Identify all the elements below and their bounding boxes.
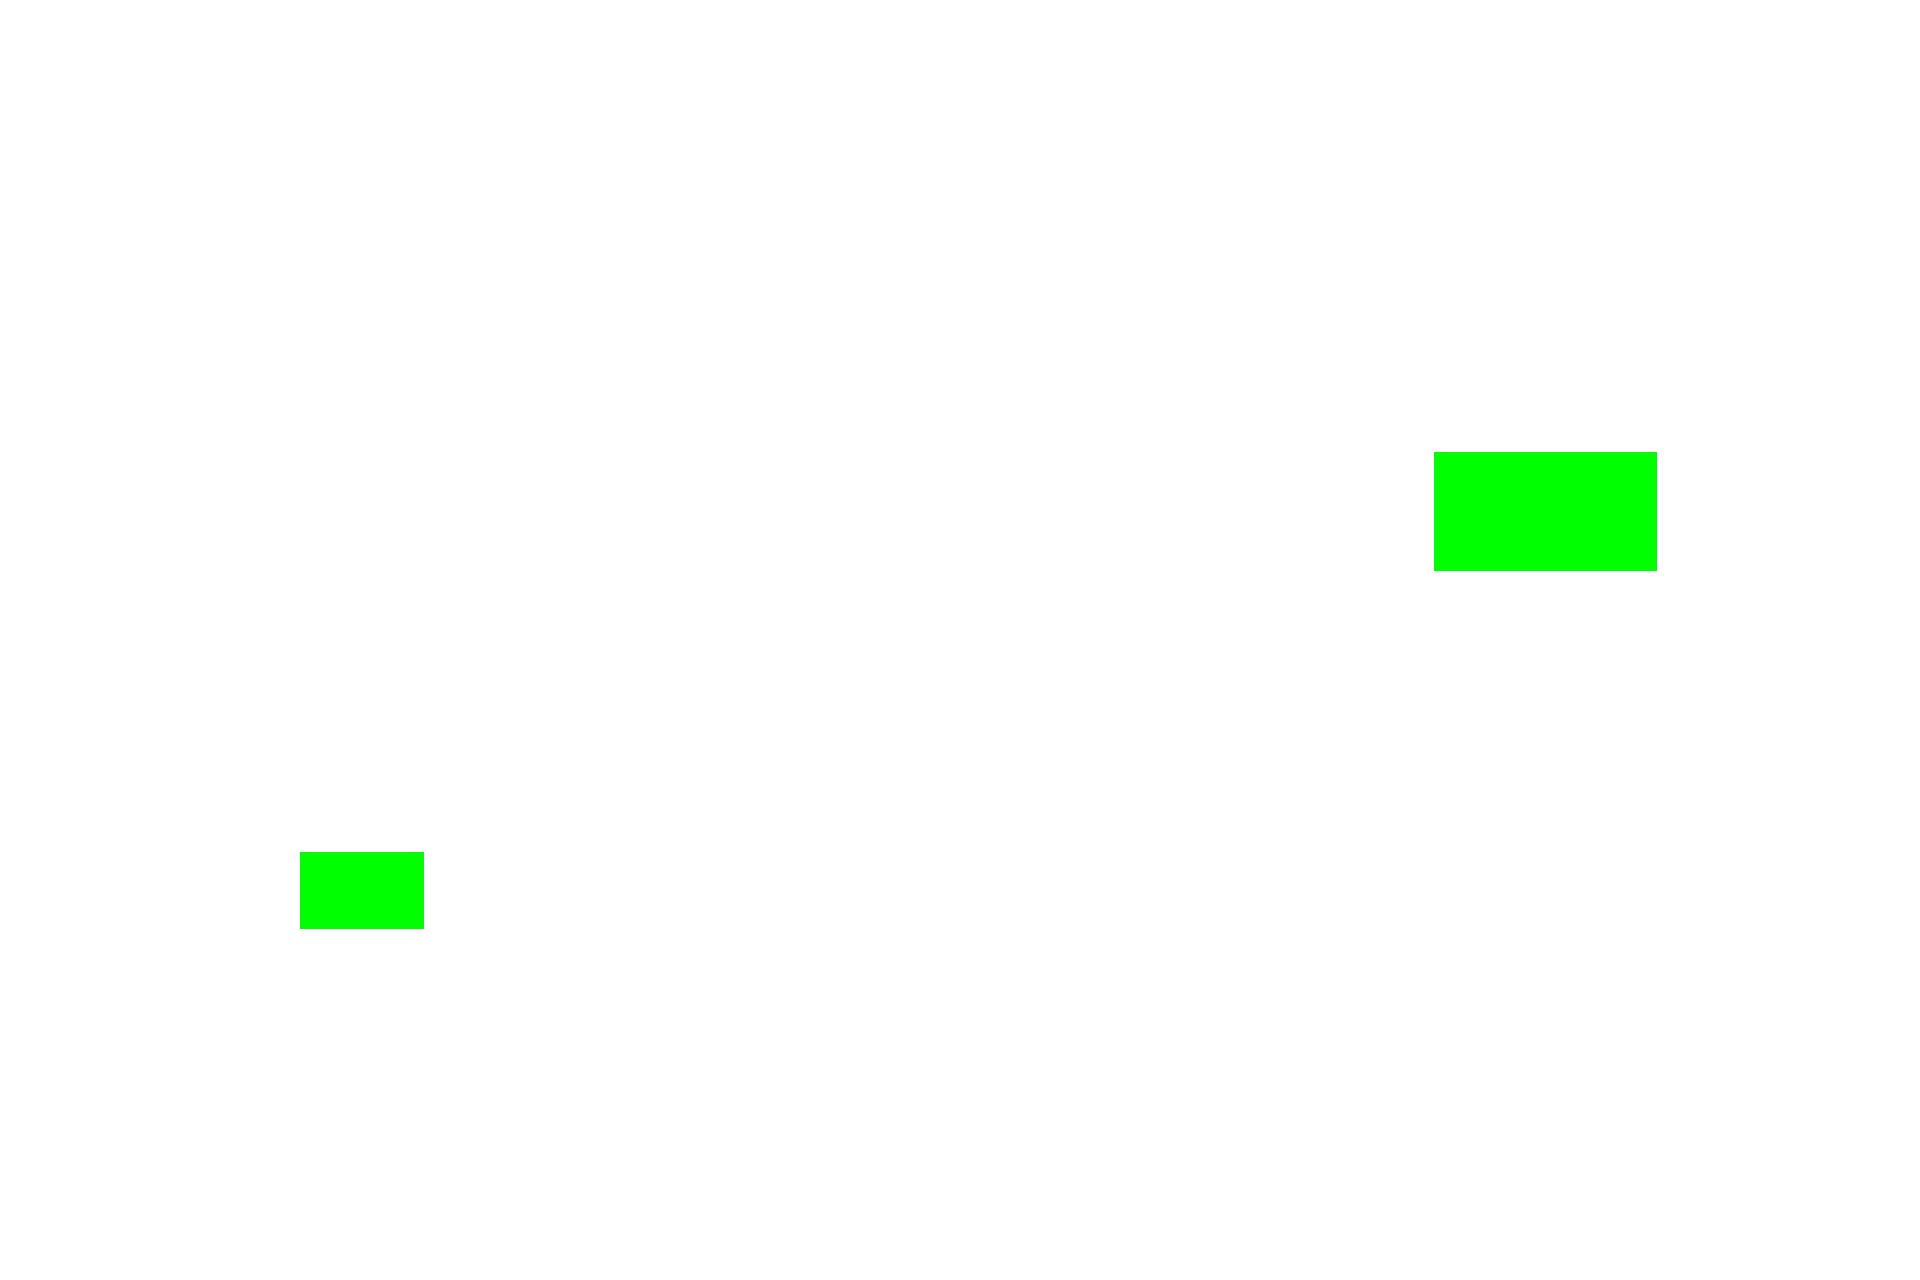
green rectangle A (upper right) bbox=[1434, 452, 1657, 571]
green rectangle B (lower left) bbox=[300, 852, 424, 929]
